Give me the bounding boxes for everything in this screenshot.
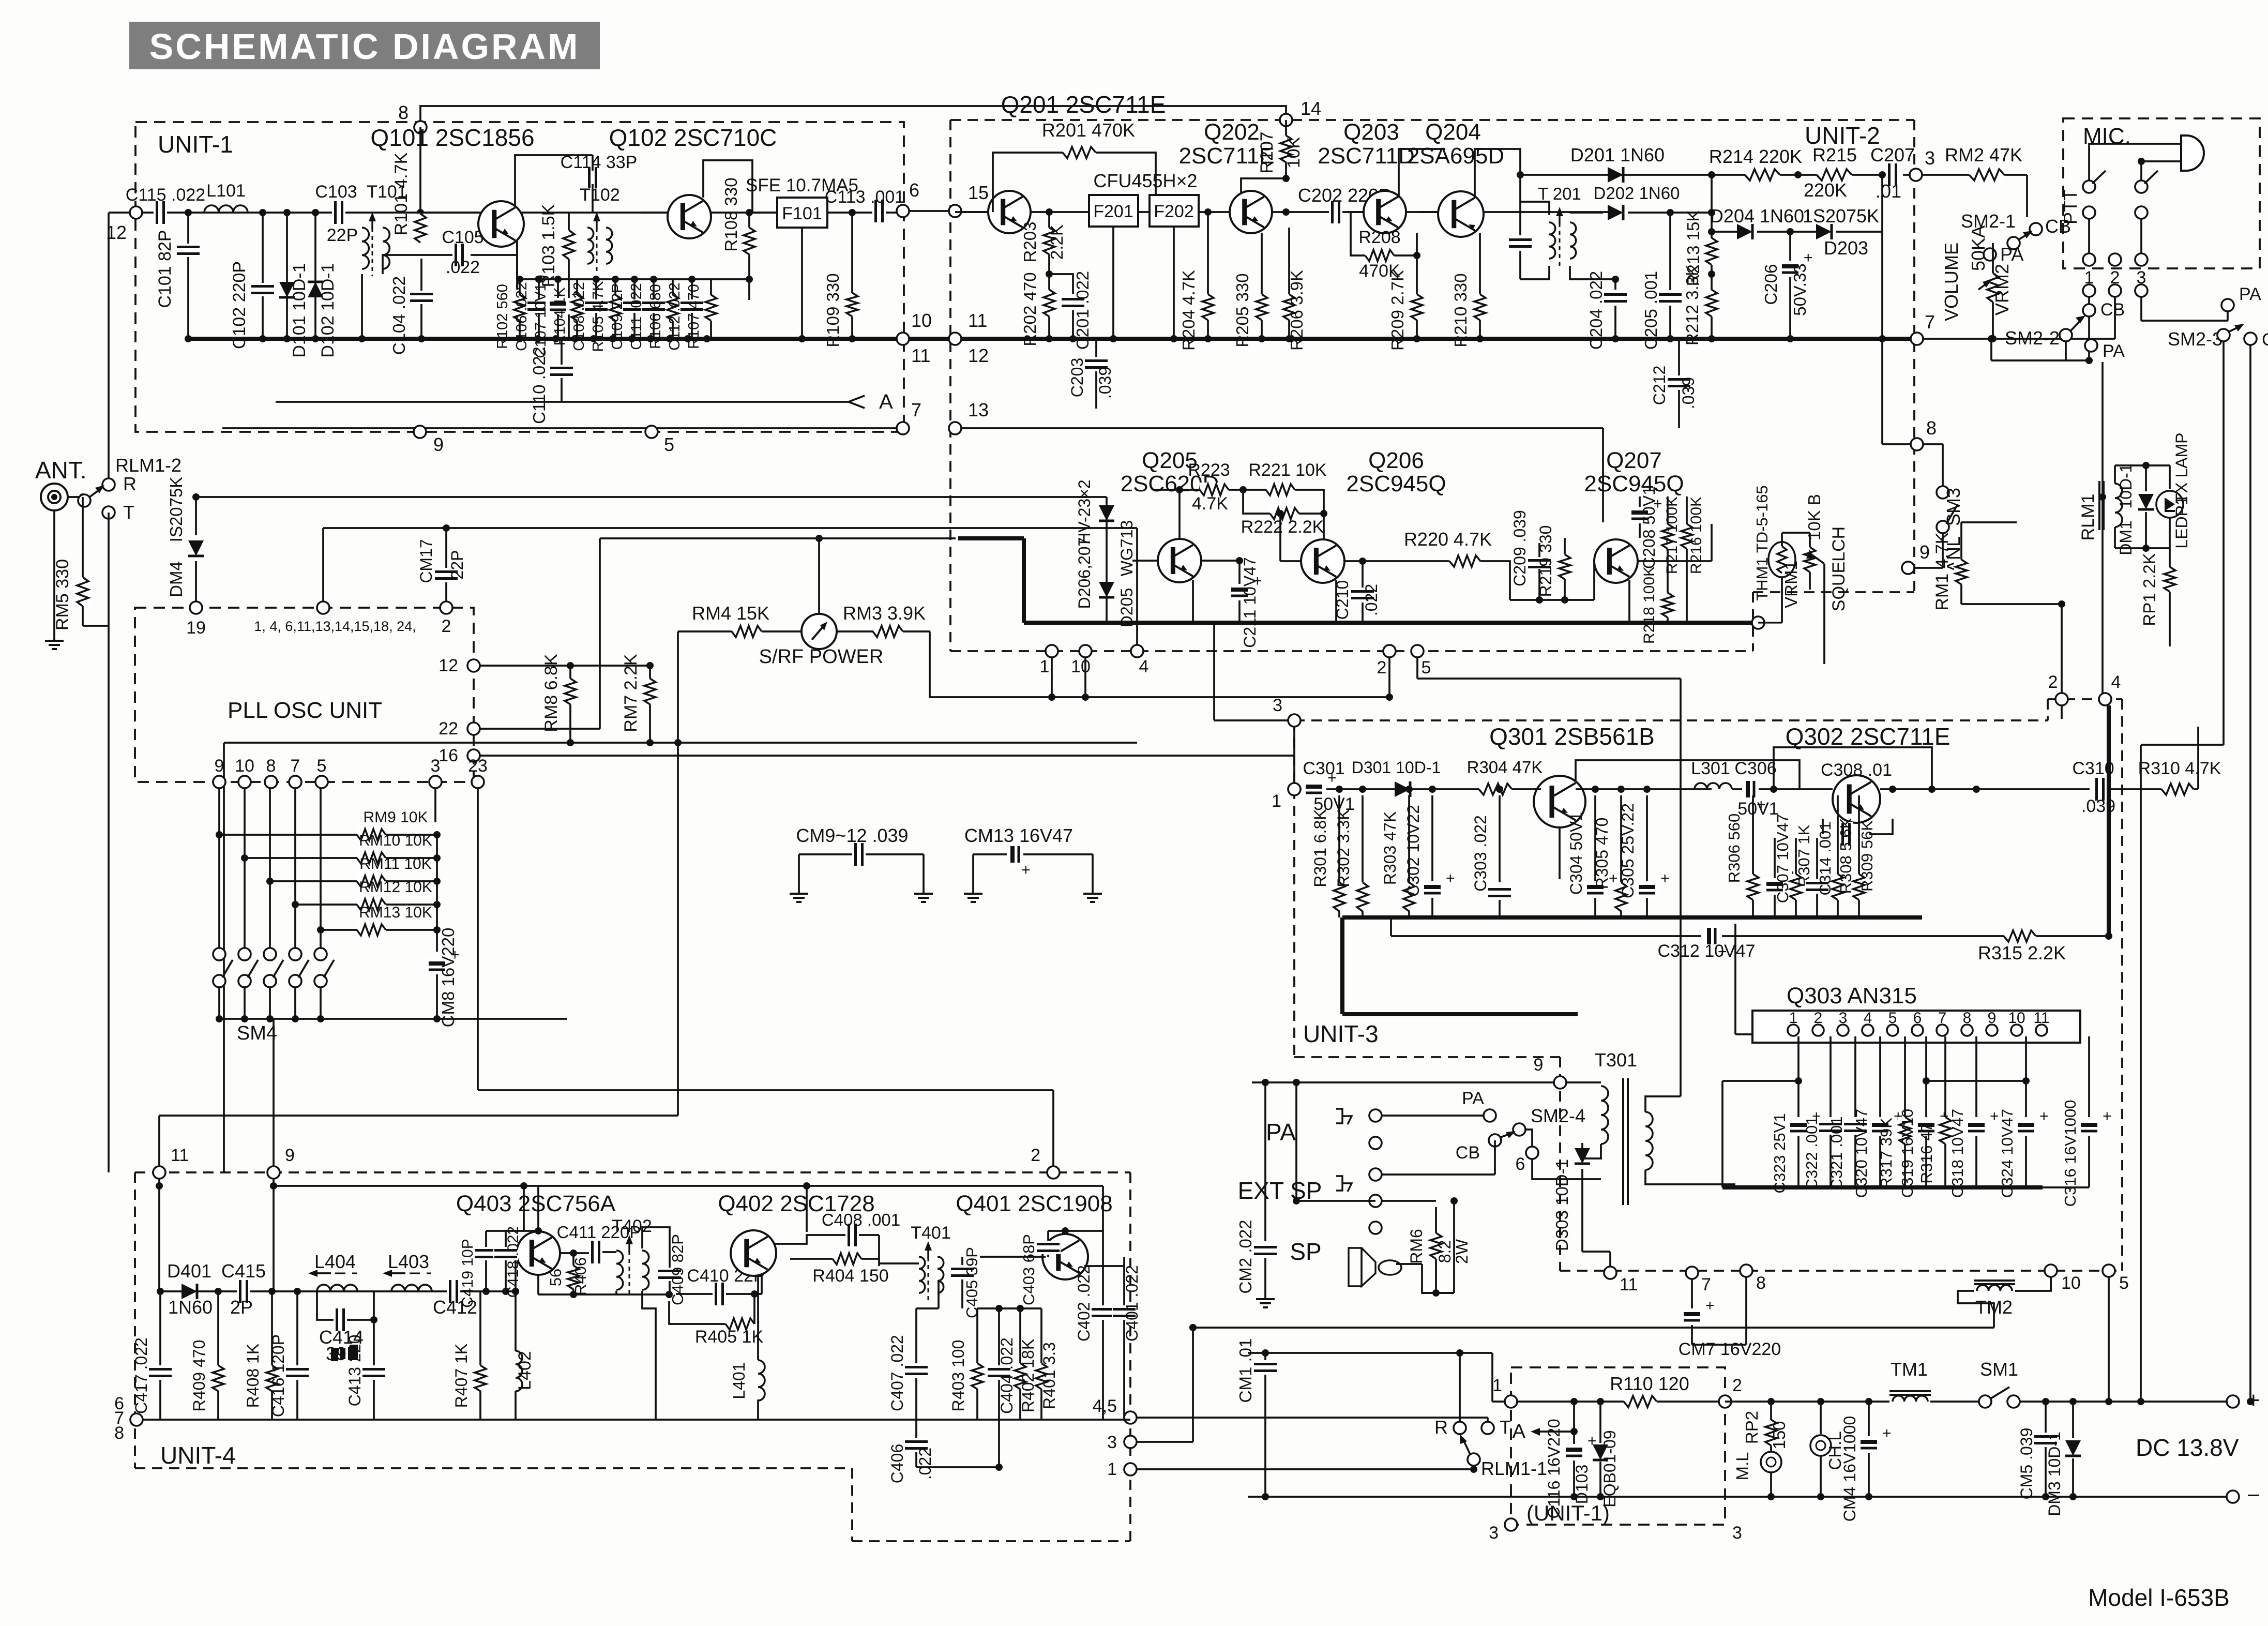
resistor R208 470K (1351, 212, 1365, 255)
pin 11 unit4 (153, 1166, 165, 1179)
capacitor C302 (1420, 881, 1445, 898)
svg-text:SCHEMATIC DIAGRAM: SCHEMATIC DIAGRAM (149, 26, 580, 67)
svg-text:C324 10V47: C324 10V47 (1998, 1109, 2016, 1198)
pin 8 (414, 121, 427, 133)
transistor Q401 (1042, 1234, 1088, 1279)
svg-text:C401 .022: C401 .022 (1123, 1265, 1141, 1342)
lamp ML (1761, 1452, 1781, 1472)
wire rm1 top (1961, 521, 2017, 523)
svg-text:C101 82P: C101 82P (155, 230, 175, 308)
svg-text:1, 4, 6,11,13,14,15,18, 24,: 1, 4, 6,11,13,14,15,18, 24, (254, 619, 416, 634)
svg-text:C417 .022: C417 .022 (132, 1337, 150, 1414)
svg-text:RM4 15K: RM4 15K (692, 603, 769, 624)
resistors R217 R216 (1660, 524, 1675, 549)
wire q101 collector (515, 155, 593, 206)
switch mic2 (2135, 180, 2148, 193)
svg-text:RM2 47K: RM2 47K (1945, 144, 2022, 165)
svg-text:+: + (1446, 870, 1455, 887)
wire d401 row (159, 1290, 480, 1292)
wire t201 top (1520, 202, 1549, 215)
resistor R103 (568, 213, 570, 230)
capacitor CM1 (1264, 1353, 1266, 1360)
switch PA contact (1984, 248, 1996, 261)
svg-text:(UNIT-1): (UNIT-1) (1526, 1501, 1610, 1525)
wire r108 bottom (748, 279, 750, 300)
pin 7 unit3 (1686, 1267, 1698, 1279)
transformer T101 (362, 228, 369, 269)
capacitor C108 (595, 279, 597, 339)
resistor R307 (1795, 838, 1797, 874)
svg-text:2SC945Q: 2SC945Q (1346, 471, 1446, 496)
svg-text:C407 .022: C407 .022 (888, 1335, 906, 1411)
svg-text:Q206: Q206 (1368, 448, 1424, 473)
svg-text:CM2 .022: CM2 .022 (1236, 1219, 1255, 1293)
svg-text:D101 10D-1: D101 10D-1 (290, 263, 309, 357)
diode D203 (1790, 231, 1818, 233)
resistor R402 18K (1019, 1308, 1021, 1363)
svg-text:2P: 2P (230, 1297, 253, 1318)
capacitor C207 (1886, 162, 1899, 187)
svg-text:D202 1N60: D202 1N60 (1594, 184, 1680, 203)
pin 2 ubox (1719, 1395, 1731, 1408)
filter F201 (1089, 195, 1138, 227)
svg-text:CB: CB (1456, 1143, 1480, 1163)
wire ubox line (1517, 1401, 1624, 1403)
capacitor CM4 (1868, 1402, 1870, 1436)
wire sm22 down (2065, 341, 2067, 360)
capacitor CM17 (445, 528, 447, 568)
svg-text:5: 5 (1888, 1010, 1897, 1027)
svg-text:7: 7 (291, 756, 300, 776)
svg-text:1S2075K: 1S2075K (1803, 205, 1879, 227)
svg-text:DC 13.8V: DC 13.8V (2136, 1434, 2239, 1461)
pin 8 unit3 (1740, 1264, 1752, 1277)
svg-text:6: 6 (1913, 1010, 1922, 1027)
resistor R408 (271, 1291, 273, 1365)
transistor Q402 (731, 1230, 776, 1276)
resistor R401 3.3K (1040, 1308, 1042, 1363)
pin 7 unit4 (130, 1413, 143, 1426)
capacitor C106 (538, 279, 540, 339)
svg-text:8: 8 (398, 102, 409, 123)
svg-text:Q201 2SC711E: Q201 2SC711E (1001, 91, 1166, 118)
diode D101 (286, 213, 288, 339)
diode D103 (1599, 1402, 1601, 1443)
svg-text:RM3 3.9K: RM3 3.9K (843, 603, 926, 624)
wire line 2567 (1192, 1327, 1994, 1329)
svg-text:C102 220P: C102 220P (230, 261, 249, 349)
svg-text:UNIT-1: UNIT-1 (158, 131, 233, 158)
resistor R105 (614, 279, 616, 339)
svg-text:CFU455H×2: CFU455H×2 (1093, 170, 1197, 191)
svg-text:RLM1: RLM1 (2078, 494, 2098, 541)
svg-text:13: 13 (968, 399, 989, 420)
svg-text:Q202: Q202 (1204, 119, 1260, 145)
svg-text:C402 .022: C402 .022 (1075, 1265, 1093, 1342)
wire pin2 unit4 up (1052, 1090, 1054, 1166)
wire c207col down (1881, 232, 1883, 339)
MIC dashed box (2063, 118, 2260, 268)
svg-text:C110 .022: C110 .022 (530, 347, 549, 424)
svg-text:SM3: SM3 (1943, 488, 1964, 526)
wire f101 gnd (801, 228, 803, 339)
svg-text:L101: L101 (206, 181, 246, 201)
svg-text:R315 2.2K: R315 2.2K (1978, 942, 2066, 963)
wire q401 e (1084, 1265, 1124, 1267)
svg-text:C319 16V10: C319 16V10 (1898, 1109, 1916, 1198)
capacitor C103 (332, 200, 345, 225)
svg-text:2: 2 (1377, 658, 1387, 677)
svg-text:8: 8 (266, 756, 276, 776)
svg-text:R405 1K: R405 1K (695, 1327, 764, 1347)
capacitor C306 (1742, 777, 1759, 802)
transistor Q302b (1833, 775, 1880, 823)
svg-text:C211 10V47: C211 10V47 (1241, 557, 1259, 648)
svg-text:C107 10V10: C107 10V10 (533, 275, 549, 358)
svg-text:C112 .022: C112 .022 (667, 282, 683, 351)
svg-text:R303 47K: R303 47K (1381, 811, 1399, 885)
svg-text:RP1 2.2K: RP1 2.2K (2140, 553, 2159, 626)
svg-text:Q207: Q207 (1606, 448, 1662, 473)
capacitor C406 (915, 1420, 917, 1438)
svg-text:F202: F202 (1154, 202, 1194, 221)
diodes D206 D207 (1106, 497, 1108, 623)
antenna connector (41, 484, 68, 510)
svg-text:C418 .022: C418 .022 (505, 1226, 522, 1298)
svg-text:R222 2.2K: R222 2.2K (1241, 517, 1324, 537)
svg-text:2: 2 (442, 616, 451, 636)
svg-text:R104 1K: R104 1K (552, 287, 568, 346)
svg-text:RM1 4.7K: RM1 4.7K (1932, 532, 1952, 610)
resistor R210 (1479, 233, 1481, 294)
wire mic leads (2089, 144, 2181, 180)
wire c306 q302 (1759, 788, 1833, 790)
meter S/RF POWER (802, 614, 837, 649)
svg-text:Q401 2SC1908: Q401 2SC1908 (956, 1191, 1112, 1216)
wire spk (1396, 1263, 1422, 1265)
pin 4-5 unit4 (1124, 1411, 1137, 1424)
capacitor C401 (1123, 1257, 1125, 1305)
svg-text:3: 3 (1107, 1433, 1117, 1452)
wire pin4 col (2101, 362, 2104, 693)
svg-text:T102: T102 (580, 185, 620, 205)
wire A line (276, 401, 849, 403)
svg-text:11: 11 (911, 345, 930, 366)
transistor Q204 (1438, 191, 1484, 237)
inductor L402 (515, 1291, 517, 1351)
resistor R201 470K (993, 153, 1063, 212)
svg-text:.022: .022 (916, 1448, 934, 1480)
wire t301 right (1680, 936, 1682, 1096)
capacitor C412 (447, 1279, 460, 1304)
thick rail bank (1722, 1185, 2043, 1190)
svg-text:Q101 2SC1856: Q101 2SC1856 (370, 124, 534, 151)
wire pin12 pll (480, 665, 650, 667)
transistor Q102 (668, 195, 711, 238)
svg-text:TX LAMP: TX LAMP (2172, 433, 2191, 504)
svg-text:6: 6 (1516, 1154, 1525, 1174)
svg-text:R107 470: R107 470 (686, 284, 702, 349)
svg-text:10: 10 (2008, 1010, 2025, 1027)
pin 22 pll (467, 722, 480, 735)
resistor RP2 (1770, 1402, 1772, 1420)
wire bank misc (1721, 1081, 1723, 1187)
svg-text:R309 56K: R309 56K (1858, 820, 1876, 892)
svg-text:DM3 10D-1: DM3 10D-1 (2045, 1432, 2064, 1516)
svg-text:SP: SP (1290, 1238, 1321, 1265)
capacitor C208 (1627, 507, 1652, 523)
wire c114 t102 (592, 184, 594, 213)
svg-text:9: 9 (1919, 541, 1930, 563)
switch RLM1-2 (102, 478, 115, 491)
svg-text:CM7 16V220: CM7 16V220 (1679, 1339, 1781, 1359)
resistor R221 10K (1266, 483, 1295, 497)
svg-text:C108 .022: C108 .022 (571, 282, 587, 351)
capacitor C411 220P (589, 1240, 602, 1264)
capacitor C105 (452, 243, 466, 267)
svg-text:C318 10V47: C318 10V47 (1948, 1109, 1967, 1198)
resistor R304 47K (1479, 782, 1512, 796)
wire r213 up (1711, 175, 1713, 213)
wire q301 top (1576, 760, 1800, 789)
svg-text:C208 50V1: C208 50V1 (1640, 486, 1658, 569)
capacitor c t201 (1508, 236, 1533, 250)
svg-text:2: 2 (1031, 1146, 1040, 1165)
svg-text:.039: .039 (1679, 377, 1698, 409)
pin 10 unit2b (1079, 645, 1092, 657)
pin 7 unit2 (1911, 333, 1923, 345)
svg-text:1N60: 1N60 (168, 1297, 213, 1318)
svg-text:C406: C406 (888, 1444, 906, 1484)
svg-text:8: 8 (1926, 417, 1937, 439)
svg-text:R205 330: R205 330 (1233, 273, 1252, 347)
capacitor C413 (373, 1320, 375, 1365)
transistor Q202 (1230, 191, 1272, 233)
wire mic col1 (2088, 297, 2090, 360)
switch SM1 (1979, 1395, 1991, 1408)
svg-text:LEDP1: LEDP1 (2172, 496, 2191, 548)
svg-text:10K B: 10K B (1805, 494, 1824, 540)
svg-text:11: 11 (1620, 1275, 1638, 1294)
svg-text:15: 15 (968, 182, 989, 203)
svg-text:1: 1 (1272, 791, 1281, 811)
svg-text:C413 220: C413 220 (345, 1335, 364, 1407)
wire r407 top (480, 1290, 516, 1292)
svg-text:CM4 16V1000: CM4 16V1000 (1840, 1416, 1859, 1522)
svg-text:PLL OSC UNIT: PLL OSC UNIT (228, 698, 382, 723)
wire q403 top (486, 1230, 538, 1232)
resistor R222 2.2K (1243, 490, 1270, 514)
svg-text:10: 10 (1071, 657, 1091, 676)
capacitor C110 (561, 339, 563, 402)
wire c207 col (1797, 174, 1799, 176)
resistor R107 (710, 279, 712, 339)
capacitor C102 (262, 213, 264, 339)
svg-text:R409 470: R409 470 (190, 1340, 208, 1412)
svg-text:C207: C207 (1870, 144, 1915, 165)
svg-text:3: 3 (431, 756, 441, 776)
capacitor C312 (1391, 935, 1701, 937)
wire meterline down (677, 743, 679, 1116)
svg-text:CM1 .01: CM1 .01 (1236, 1338, 1255, 1403)
capacitor CM5 (2045, 1402, 2047, 1433)
wire q40x base rail (977, 1307, 1041, 1309)
capacitor C111 (653, 279, 655, 339)
svg-text:Q203: Q203 (1343, 119, 1399, 145)
svg-text:4.7K: 4.7K (1192, 494, 1228, 514)
volume pot VRM2 (1992, 243, 1994, 273)
svg-text:2SC945Q: 2SC945Q (1584, 471, 1684, 496)
thick bus lower (1024, 621, 1754, 625)
svg-text:C408 .001: C408 .001 (822, 1210, 900, 1229)
UNIT-2 dashed box (950, 119, 1914, 121)
ground cm9 (798, 886, 800, 894)
resistor R212 (1704, 290, 1719, 317)
svg-text:R202 470: R202 470 (1020, 272, 1039, 346)
wire q207 block (1510, 599, 1594, 601)
svg-text:2SA695D: 2SA695D (1407, 143, 1504, 169)
svg-text:R221 10K: R221 10K (1248, 460, 1327, 480)
switches SM4 (213, 948, 225, 960)
jack PA (1336, 1109, 1342, 1123)
svg-text:11: 11 (968, 310, 987, 331)
capacitor C414 (317, 1291, 334, 1320)
svg-text:22P: 22P (448, 550, 466, 580)
svg-text:R212 3.3K: R212 3.3K (1683, 265, 1702, 345)
thermistor THM1 (1758, 622, 1782, 623)
svg-text:8: 8 (114, 1423, 124, 1443)
svg-text:CM8 16V220: CM8 16V220 (439, 928, 458, 1028)
svg-text:C403 68P: C403 68P (1020, 1234, 1038, 1305)
wire pin13 right line (955, 427, 1603, 429)
pin 13 unit2 (949, 422, 961, 434)
resistor RP1 (2169, 548, 2171, 567)
pin 9 unit3 (1554, 1076, 1566, 1089)
UNIT-4 dashed box (135, 1171, 1130, 1173)
ground cm12 (923, 886, 925, 894)
wire UNIT-2 chain (955, 211, 1609, 213)
pin 4 unit3 (2099, 693, 2111, 705)
wire extsp (1382, 1200, 1436, 1202)
wire q302 out (1880, 788, 2090, 790)
speaker SP (1362, 1248, 1375, 1286)
capacitor C305 (1646, 795, 1648, 882)
svg-text:16: 16 (439, 746, 458, 765)
wire rm4 left (677, 631, 679, 743)
svg-text:C321 .001: C321 .001 (1827, 1116, 1846, 1190)
svg-text:1: 1 (1492, 1376, 1502, 1395)
svg-text:C322 .001: C322 .001 (1803, 1116, 1821, 1190)
svg-text:R306 560: R306 560 (1725, 814, 1743, 883)
svg-text:50V1: 50V1 (1737, 799, 1778, 819)
svg-text:C204 .022: C204 .022 (1586, 271, 1606, 350)
svg-text:7: 7 (1701, 1275, 1711, 1294)
diode D201 (1608, 167, 1623, 183)
wire f201 gnd (1112, 227, 1114, 339)
svg-text:RLM1-1: RLM1-1 (1481, 1458, 1547, 1479)
wire line 2616 (1248, 1352, 1492, 1354)
resistor R102 (519, 279, 521, 339)
wire squelch (1823, 564, 1825, 664)
svg-text:R110 120: R110 120 (1610, 1373, 1689, 1394)
svg-text:R406: R406 (571, 1257, 589, 1296)
svg-text:R304 47K: R304 47K (1467, 758, 1543, 777)
svg-text:10K: 10K (1284, 137, 1304, 168)
pin 10 unit1 (897, 333, 909, 345)
resistor RM1 (1960, 522, 1962, 560)
pin 3 ubox (1505, 1518, 1517, 1531)
diode DM1 (2145, 465, 2147, 491)
transformer T401 (919, 1257, 925, 1293)
wire unit1 top row (517, 278, 749, 280)
ground cm2 (1264, 1292, 1266, 1299)
svg-text:Model I-653B: Model I-653B (2088, 1584, 2230, 1611)
pin 6 unit1 (897, 205, 909, 217)
svg-text:+: + (1660, 870, 1670, 887)
transformer T102 (587, 228, 594, 264)
resistor R223 (1178, 490, 1181, 539)
svg-text:PA: PA (1462, 1089, 1484, 1108)
svg-text:T: T (123, 502, 134, 523)
svg-text:C301: C301 (1303, 759, 1344, 778)
resistor R106 (672, 279, 674, 339)
svg-text:C419 10P: C419 10P (459, 1239, 476, 1307)
svg-text:6: 6 (909, 179, 919, 201)
resistor RM8 (567, 662, 574, 669)
wire q205 emitter (1192, 580, 1194, 623)
resistor R203 (1048, 212, 1050, 228)
svg-text:.039: .039 (1096, 367, 1114, 399)
resistor R218 (1660, 593, 1675, 618)
svg-text:PA: PA (1266, 1119, 1296, 1146)
pin 19 pll (190, 601, 202, 614)
svg-text:C206: C206 (1761, 264, 1780, 305)
transistor Q203 (1364, 191, 1406, 233)
svg-text:PTT: PTT (2060, 189, 2081, 224)
capacitor C301 (1302, 781, 1326, 797)
resistor RM5 330 (82, 497, 84, 577)
svg-text:Q303 AN315: Q303 AN315 (1787, 983, 1917, 1008)
capacitor C107 (557, 279, 559, 339)
svg-text:RLM1-2: RLM1-2 (115, 455, 182, 476)
svg-text:SQUELCH: SQUELCH (1829, 526, 1849, 611)
resistor RM9 10K (218, 788, 220, 835)
svg-text:C416 120P: C416 120P (269, 1334, 288, 1417)
resistor RM11 10K (269, 788, 271, 881)
title bar (129, 22, 600, 69)
svg-text:9: 9 (215, 756, 224, 776)
svg-text:C323 25V1: C323 25V1 (1771, 1113, 1789, 1193)
svg-text:R216 100K: R216 100K (1688, 496, 1705, 574)
wire pin23 down (477, 788, 479, 1019)
svg-text:RP2: RP2 (1742, 1411, 1761, 1444)
svg-text:2SC711D: 2SC711D (1318, 143, 1415, 169)
svg-text:1: 1 (1107, 1459, 1117, 1479)
svg-text:R214 220K: R214 220K (1709, 146, 1802, 167)
capacitor C211 (1238, 561, 1241, 584)
inductor L404 (317, 1285, 357, 1291)
svg-text:+: + (1705, 1297, 1715, 1314)
wire ant stub (53, 510, 55, 634)
svg-text:.022: .022 (446, 258, 480, 277)
svg-text:D301 10D-1: D301 10D-1 (1352, 758, 1441, 777)
capacitor C112 (691, 279, 693, 339)
pin 2 unit4 (1047, 1166, 1060, 1179)
terminal minus (2227, 1490, 2239, 1503)
capacitor C205 (1669, 213, 1671, 290)
svg-text:R208: R208 (1358, 228, 1400, 247)
mic pin 2 (2109, 253, 2121, 266)
